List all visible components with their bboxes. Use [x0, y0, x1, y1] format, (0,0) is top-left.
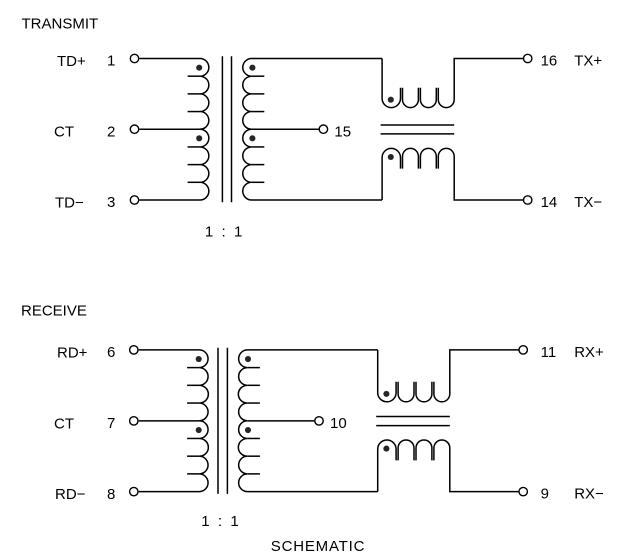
polarity dot choke top	[388, 97, 394, 103]
svg-text:6: 6	[107, 344, 115, 361]
pin 9 terminal	[519, 487, 527, 495]
pin 2 terminal	[130, 125, 138, 133]
polarity dot secondary lower	[245, 427, 251, 433]
svg-text:TRANSMIT: TRANSMIT	[22, 16, 99, 33]
pin 6 terminal	[130, 346, 138, 354]
pin 11 terminal	[519, 346, 527, 354]
svg-text:RD−: RD−	[55, 486, 86, 503]
choke L1 bottom winding and wires	[382, 148, 400, 200]
svg-text:1 : 1: 1 : 1	[205, 223, 243, 240]
svg-text:2: 2	[107, 123, 115, 140]
svg-text:16: 16	[541, 53, 558, 70]
svg-text:1: 1	[107, 53, 115, 70]
polarity dot primary top	[196, 65, 202, 71]
svg-text:RX−: RX−	[574, 486, 604, 503]
wire center tap to pin 15	[252, 128, 319, 130]
pin 7 terminal	[130, 417, 138, 425]
svg-text:RECEIVE: RECEIVE	[21, 302, 87, 319]
svg-text:CT: CT	[54, 124, 74, 141]
svg-text:11: 11	[541, 344, 557, 361]
polarity dot primary lower	[196, 135, 202, 141]
pin 10 terminal	[315, 417, 323, 425]
polarity dot secondary top	[249, 65, 255, 71]
transformer T1 primary winding	[139, 59, 208, 201]
svg-text:14: 14	[541, 194, 558, 211]
svg-text:CT: CT	[54, 415, 74, 432]
pin 15 terminal	[319, 125, 327, 133]
pin 1 terminal	[130, 54, 138, 62]
polarity dot choke top	[383, 391, 389, 397]
wire center tap to pin 10	[247, 420, 314, 422]
pin 3 terminal	[130, 196, 138, 204]
svg-text:3: 3	[107, 194, 115, 211]
svg-text:TX+: TX+	[574, 53, 602, 70]
choke L2 top winding and wires	[378, 350, 396, 402]
transformer T2 core	[217, 348, 219, 494]
svg-text:TD−: TD−	[55, 194, 84, 211]
transformer T1 core	[221, 56, 223, 202]
choke L2 core	[376, 416, 450, 418]
svg-text:8: 8	[107, 486, 115, 503]
svg-text:RD+: RD+	[57, 344, 88, 361]
svg-text:7: 7	[107, 415, 115, 432]
pin 8 terminal	[130, 487, 138, 495]
polarity dot choke bottom	[383, 446, 389, 452]
choke L1 core	[381, 124, 455, 126]
pin 14 terminal	[524, 196, 532, 204]
polarity dot choke bottom	[388, 154, 394, 160]
svg-text:SCHEMATIC: SCHEMATIC	[271, 538, 365, 555]
choke L1 top winding and wires	[382, 59, 400, 108]
svg-text:15: 15	[334, 124, 351, 141]
svg-text:1 : 1: 1 : 1	[201, 513, 239, 530]
transformer T2 primary winding	[139, 350, 209, 492]
pin 16 terminal	[524, 54, 532, 62]
svg-text:TX−: TX−	[574, 194, 602, 211]
svg-text:TD+: TD+	[57, 53, 86, 70]
svg-text:RX+: RX+	[574, 344, 604, 361]
transformer T1 secondary winding	[243, 59, 382, 201]
polarity dot primary lower	[196, 427, 202, 433]
choke L2 bottom winding and wires	[378, 440, 396, 492]
polarity dot secondary top	[245, 356, 251, 362]
polarity dot primary top	[196, 356, 202, 362]
svg-text:9: 9	[541, 486, 549, 503]
transformer T2 secondary winding	[238, 350, 377, 492]
polarity dot secondary lower	[249, 135, 255, 141]
svg-text:10: 10	[330, 415, 347, 432]
